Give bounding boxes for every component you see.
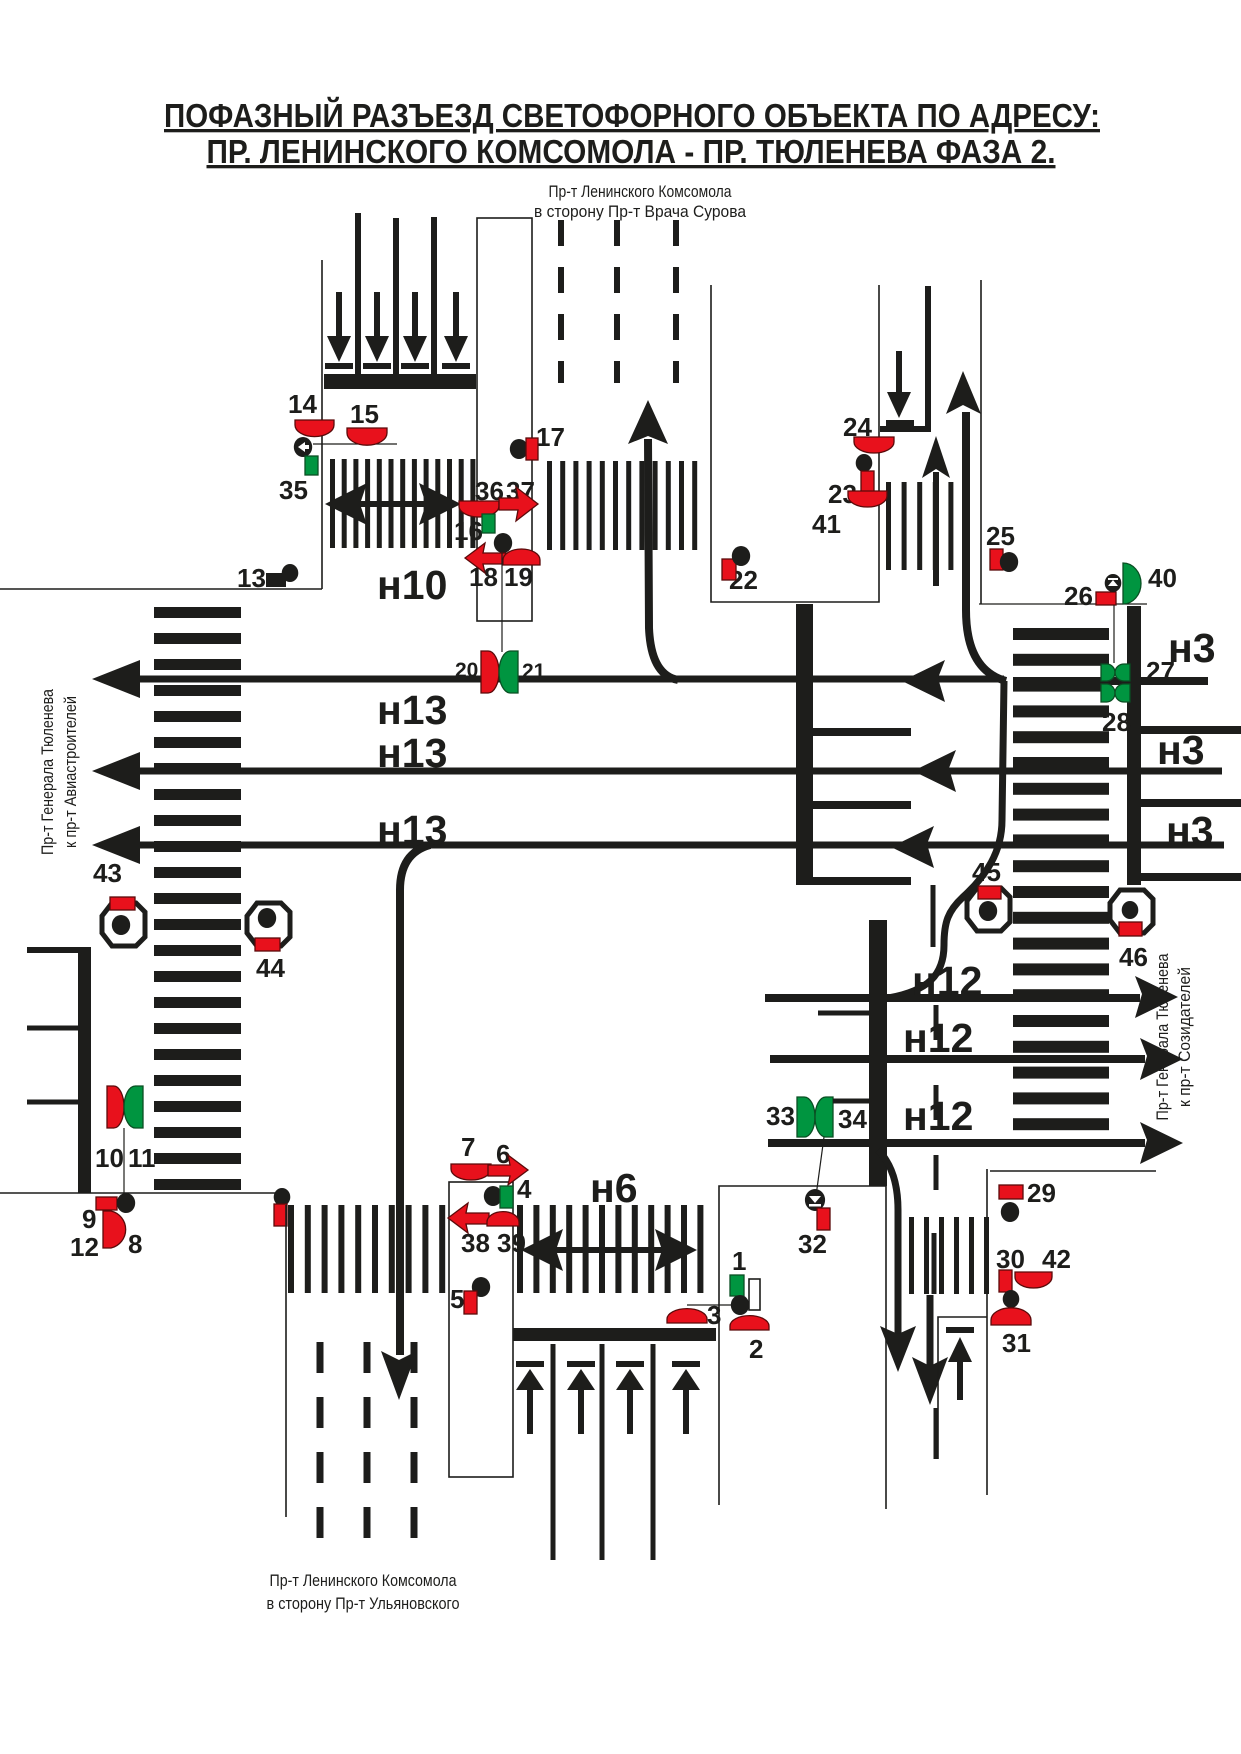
stub lane y805 [812, 801, 911, 809]
median center thick [796, 604, 813, 885]
svg-text:20: 20 [455, 659, 478, 682]
svg-text:н13: н13 [377, 687, 447, 733]
svg-text:5: 5 [450, 1284, 464, 1314]
wire 26 to 27/28 [1113, 605, 1115, 663]
svg-text:38: 38 [461, 1228, 490, 1258]
long curve down from east road to H12 line [888, 681, 1004, 998]
lane divider lines NW approach [358, 213, 434, 374]
thick up arrow with curve from east road [966, 412, 1006, 681]
H13 line 2 with arrows [130, 768, 1222, 775]
svg-text:Пр-т Ленинского Комсомола: Пр-т Ленинского Комсомола [270, 1571, 457, 1590]
road edge NW vertical thin [321, 260, 323, 589]
circle under 24 [856, 454, 873, 472]
svg-text:Пр-т Генерала Тюленева: Пр-т Генерала Тюленева [1153, 953, 1172, 1120]
svg-text:4: 4 [517, 1174, 532, 1204]
svg-text:н13: н13 [377, 730, 447, 776]
svg-text:н10: н10 [377, 562, 447, 608]
svg-text:27: 27 [1146, 656, 1175, 686]
wire 33/34 down to 32 [816, 1137, 824, 1196]
stop bar south [513, 1328, 716, 1341]
crosswalk south west part [288, 1205, 445, 1293]
crosswalk north west part [330, 459, 475, 548]
road edge south west thin [285, 1205, 287, 1517]
dashed lanes south exit [320, 1342, 414, 1562]
svg-text:32: 32 [798, 1229, 827, 1259]
lane divider lines south approach [553, 1344, 653, 1560]
svg-text:44: 44 [256, 953, 285, 983]
lane line east y730 [1140, 726, 1241, 734]
H12 line 2 [770, 1055, 1145, 1063]
svg-text:26: 26 [1064, 581, 1093, 611]
long down arrow southbound [400, 845, 430, 1355]
H12 line 3 [768, 1139, 1145, 1147]
svg-text:ПР. ЛЕНИНСКОГО КОМСОМОЛА - ПР.: ПР. ЛЕНИНСКОГО КОМСОМОЛА - ПР. ТЮЛЕНЕВА … [207, 133, 1056, 170]
island box around 22/41 [711, 285, 879, 602]
wire 10/11 down [123, 1128, 125, 1193]
crosswalk east long zebra [1013, 628, 1109, 1130]
stop bar NW [324, 374, 476, 389]
signal 35 green [305, 456, 318, 475]
up arrows south approach with stop ticks [516, 1361, 700, 1434]
median east road thick [1127, 606, 1141, 885]
circle under 16 [494, 533, 512, 553]
wire 3 to 1 [687, 1304, 737, 1306]
signal K circle under 14 [294, 437, 312, 457]
road edge east island thin vertical [986, 1169, 988, 1495]
down arrow NE exit with stop tick [896, 351, 902, 395]
svg-text:к пр-т Авиастроителей: к пр-т Авиастроителей [61, 696, 80, 848]
svg-text:15: 15 [350, 399, 379, 429]
svg-text:39: 39 [497, 1228, 526, 1258]
svg-text:29: 29 [1027, 1178, 1056, 1208]
svg-text:45: 45 [972, 857, 1001, 887]
svg-text:к пр-т Созидателей: к пр-т Созидателей [1175, 967, 1194, 1107]
svg-text:Пр-т Генерала Тюленева: Пр-т Генерала Тюленева [38, 689, 57, 855]
lane line east y803 [1140, 799, 1241, 807]
svg-text:11: 11 [128, 1143, 156, 1173]
road edge east bottom horizontal thin [990, 1170, 1156, 1172]
svg-text:28: 28 [1102, 707, 1131, 737]
thin up arrow NE [933, 472, 939, 586]
thick corner road edge NE [880, 286, 928, 429]
stub lane y881 [812, 877, 911, 885]
down arrow B [927, 1295, 934, 1368]
svg-text:н12: н12 [912, 958, 982, 1004]
svg-text:в сторону Пр-т Врача Сурова: в сторону Пр-т Врача Сурова [534, 203, 747, 221]
circle under 1 [731, 1295, 749, 1315]
double headed arrow in south crosswalk [521, 1229, 697, 1271]
crosswalk south-east [909, 1217, 989, 1294]
crosswalk south mid part [517, 1205, 703, 1293]
H13 line 1 with arrows [130, 676, 1004, 683]
island outline box NW [477, 218, 532, 621]
svg-text:н3: н3 [1166, 808, 1214, 854]
stub lane y1013 [818, 1011, 869, 1016]
wire 34 to median [833, 1099, 869, 1104]
svg-text:ПОФАЗНЫЙ РАЗЪЕЗД СВЕТОФОРНОГО: ПОФАЗНЫЙ РАЗЪЕЗД СВЕТОФОРНОГО ОБЪЕКТА ПО… [164, 96, 1100, 134]
road edge west top horizontal thin [0, 588, 322, 590]
big up arrow northbound through intersection [648, 439, 678, 680]
dashed exit lanes north [561, 220, 676, 383]
down arrows NW approach with stop ticks [325, 292, 470, 369]
svg-text:31: 31 [1002, 1328, 1031, 1358]
svg-text:21: 21 [522, 660, 546, 683]
svg-text:42: 42 [1042, 1244, 1071, 1274]
svg-text:н3: н3 [1168, 625, 1216, 671]
svg-text:9: 9 [82, 1204, 96, 1234]
side street west edges [27, 947, 91, 953]
svg-text:46: 46 [1119, 942, 1148, 972]
svg-text:в сторону Пр-т Ульяновского: в сторону Пр-т Ульяновского [267, 1594, 460, 1613]
island box south-east outline [719, 1186, 886, 1509]
double headed arrow in north crosswalk [325, 483, 461, 525]
svg-text:2: 2 [749, 1334, 763, 1364]
dashed lane line south-east [933, 885, 936, 1294]
unlabeled signal at south crosswalk west end [274, 1188, 291, 1206]
svg-text:41: 41 [812, 509, 841, 539]
road edge NE thin vertical [980, 280, 982, 604]
road edge east top horizontal thin [979, 603, 1147, 605]
island outline box south [449, 1182, 513, 1477]
road edge west bottom horizontal thin [0, 1192, 281, 1194]
svg-text:35: 35 [279, 475, 308, 505]
svg-text:Пр-т Ленинского Комсомола: Пр-т Ленинского Комсомола [549, 183, 733, 201]
corner lane line with up arrow south-east [938, 1317, 987, 1459]
crosswalk west long zebra [154, 607, 241, 1190]
svg-text:43: 43 [93, 858, 122, 888]
median south-east road thick [869, 920, 887, 1186]
svg-text:34: 34 [838, 1104, 867, 1134]
svg-text:1: 1 [732, 1246, 746, 1276]
svg-text:17: 17 [536, 422, 565, 452]
svg-text:8: 8 [128, 1229, 142, 1259]
lane line east y877 [1140, 873, 1241, 881]
svg-text:12: 12 [70, 1232, 99, 1262]
crosswalk north east part [886, 482, 969, 570]
curved down arrow A [878, 1150, 898, 1340]
svg-text:13: 13 [237, 563, 266, 593]
svg-text:10: 10 [95, 1143, 124, 1173]
svg-text:19: 19 [504, 562, 533, 592]
stub lane y732 [812, 728, 911, 736]
wire from 16-circle to signals 20/21 [501, 553, 503, 652]
svg-text:16: 16 [454, 516, 483, 546]
svg-text:н13: н13 [377, 807, 447, 853]
svg-text:н3: н3 [1157, 727, 1205, 773]
H12 line 1 [765, 994, 1140, 1002]
svg-text:н6: н6 [590, 1165, 638, 1211]
svg-text:14: 14 [288, 389, 317, 419]
svg-text:25: 25 [986, 521, 1015, 551]
svg-text:33: 33 [766, 1101, 795, 1131]
crosswalk north middle part [547, 461, 697, 550]
svg-text:7: 7 [461, 1132, 475, 1162]
circle under 30 [1003, 1290, 1020, 1308]
svg-text:40: 40 [1148, 563, 1177, 593]
H13 line 3 with arrows [130, 842, 1224, 849]
